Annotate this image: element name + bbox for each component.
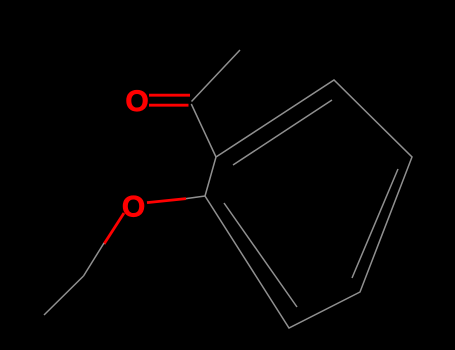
svg-text:O: O (122, 191, 145, 224)
bond C6-O2 gray half (186, 196, 205, 199)
bond C7=O1 double bond upper line (149, 94, 190, 97)
bond C7-CH3 methyl stub (192, 50, 241, 102)
aromatic inner line C3-C4 (352, 169, 398, 278)
bond C6-O2 red half (147, 199, 186, 203)
svg-text:O: O (125, 85, 148, 118)
aromatic inner line C5-C6 (224, 203, 297, 307)
aromatic inner line C1-C2 (233, 100, 332, 165)
bond C7=O1 double bond lower line (149, 104, 189, 107)
bond O2-CH2 gray half (84, 243, 105, 276)
bond O2-CH2 red half (104, 213, 124, 244)
bond C7-C1 link to ring (191, 104, 216, 157)
bond CH2-CH3 ethyl terminal (44, 276, 84, 315)
benzene ring outer hexagon (205, 80, 412, 328)
